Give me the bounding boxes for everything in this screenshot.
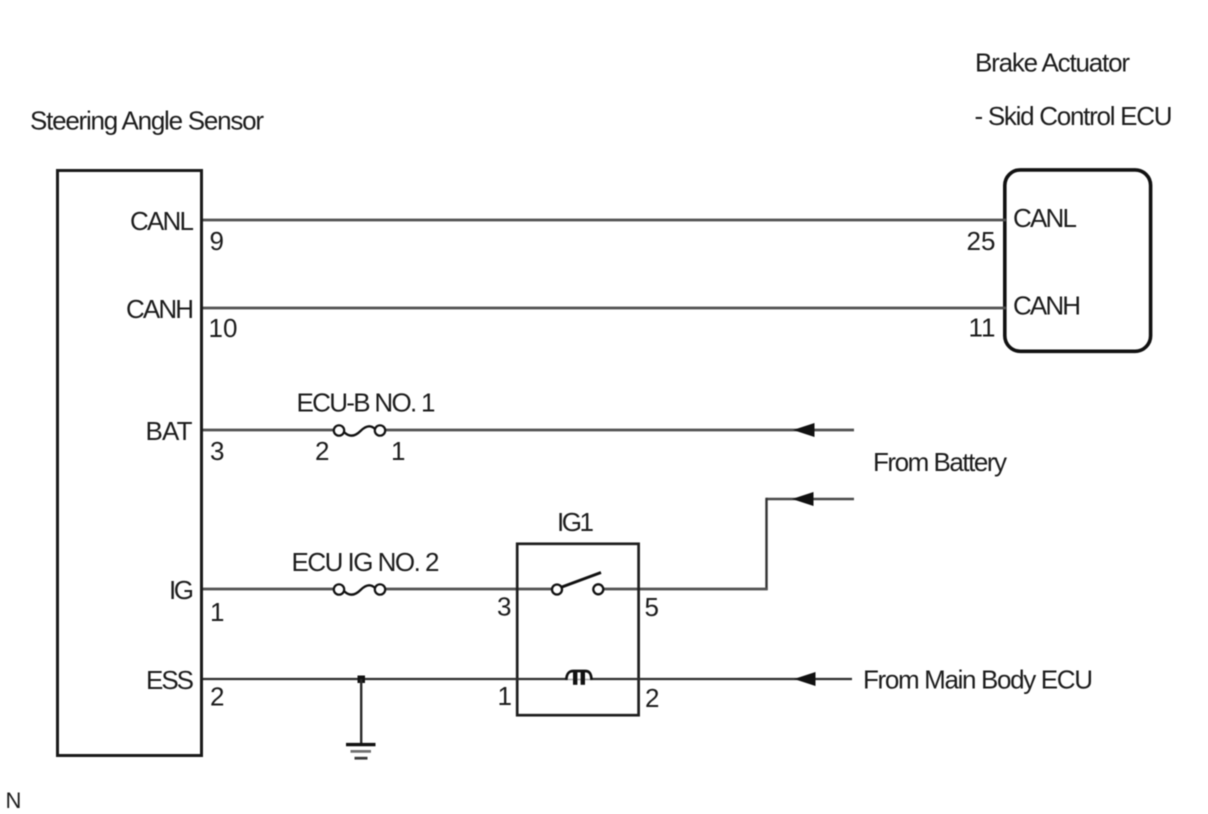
wire BAT xyxy=(203,429,854,432)
svg-text:9: 9 xyxy=(210,226,224,256)
svg-text:From Main Body ECU: From Main Body ECU xyxy=(863,665,1093,695)
pin number 2 (sensor ESS) xyxy=(210,682,224,712)
pin label CANL (ECU) xyxy=(1013,203,1077,233)
svg-text:10: 10 xyxy=(209,313,238,343)
svg-text:From Battery: From Battery xyxy=(873,447,1007,477)
fuse F1 symbol xyxy=(334,425,385,435)
svg-text:CANL: CANL xyxy=(130,206,194,236)
svg-text:2: 2 xyxy=(645,683,659,713)
label: From Battery xyxy=(873,447,1007,477)
fuse pin number 1 xyxy=(391,436,405,466)
wire from battery to IG1 (upper segment) xyxy=(767,498,855,500)
pin number 3 xyxy=(210,436,224,466)
wire CANL xyxy=(203,219,1006,222)
svg-text:1: 1 xyxy=(391,436,405,466)
ground symbol xyxy=(346,745,376,759)
svg-text:- Skid Control ECU: - Skid Control ECU xyxy=(975,101,1173,131)
svg-text:2: 2 xyxy=(210,682,224,712)
label: Steering Angle Sensor xyxy=(30,106,264,136)
svg-text:1: 1 xyxy=(498,681,512,711)
arrowhead from battery (lower) xyxy=(792,492,814,506)
wire CANH xyxy=(203,307,1006,310)
fuse ECU IG NO. 2 label xyxy=(292,547,440,577)
label: - Skid Control ECU xyxy=(975,101,1173,131)
svg-text:2: 2 xyxy=(315,436,329,466)
wire IG xyxy=(203,588,768,591)
svg-text:5: 5 xyxy=(645,592,659,622)
svg-text:BAT: BAT xyxy=(146,416,193,446)
pin number 5 (IG1 right) xyxy=(645,592,659,622)
svg-text:CANH: CANH xyxy=(126,294,194,324)
svg-text:CANL: CANL xyxy=(1013,203,1077,233)
svg-text:ECU-B NO. 1: ECU-B NO. 1 xyxy=(297,388,436,418)
fuse ECU-B NO. 1 label xyxy=(297,388,436,418)
label: N (page marker) xyxy=(6,788,22,813)
label: From Main Body ECU xyxy=(863,665,1093,695)
label: Brake Actuator xyxy=(975,48,1130,78)
svg-text:Steering Angle Sensor: Steering Angle Sensor xyxy=(30,106,264,136)
connector box: Brake Actuator Skid Control ECU xyxy=(1005,170,1151,351)
svg-text:IG: IG xyxy=(169,575,194,605)
svg-text:ESS: ESS xyxy=(146,665,194,695)
pin number 9 xyxy=(210,226,224,256)
fuse F2 symbol xyxy=(334,584,385,594)
pin number 11 xyxy=(969,313,996,343)
svg-text:3: 3 xyxy=(497,592,511,622)
pin number 1 (IG1 bottom left) xyxy=(498,681,512,711)
ground wire stem xyxy=(360,679,362,744)
arrowhead ESS from main body ECU xyxy=(794,672,816,686)
pin number 1 (sensor IG) xyxy=(210,597,224,627)
pin label CANH (ECU) xyxy=(1013,291,1081,321)
svg-text:Brake Actuator: Brake Actuator xyxy=(975,48,1130,78)
svg-text:3: 3 xyxy=(210,436,224,466)
pin label BAT xyxy=(146,416,193,446)
pin label CANH (sensor) xyxy=(126,294,194,324)
junction dot ESS/ground xyxy=(358,676,366,684)
fuse pin number 2 xyxy=(315,436,329,466)
switch SW1 contacts xyxy=(552,573,603,595)
label: IG1 xyxy=(557,507,594,537)
pin number 3 (IG1 left) xyxy=(497,592,511,622)
svg-text:ECU IG NO. 2: ECU IG NO. 2 xyxy=(292,547,440,577)
svg-text:1: 1 xyxy=(210,597,224,627)
pin number 25 xyxy=(967,226,996,256)
svg-text:11: 11 xyxy=(969,313,996,343)
arrowhead BAT from battery xyxy=(793,423,815,437)
pin number 2 (IG1 bottom right) xyxy=(645,683,659,713)
pin label IG xyxy=(169,575,194,605)
connector box: Steering Angle Sensor xyxy=(58,171,202,756)
svg-text:IG1: IG1 xyxy=(557,507,594,537)
switch box IG1 xyxy=(517,544,638,715)
svg-text:CANH: CANH xyxy=(1013,291,1081,321)
svg-text:25: 25 xyxy=(967,226,996,256)
wire ESS xyxy=(203,678,852,680)
pin label CANL (sensor) xyxy=(130,206,194,236)
pin label ESS xyxy=(146,665,194,695)
svg-text:N: N xyxy=(6,788,22,813)
pin number 10 xyxy=(209,313,238,343)
wire vertical drop to IG wire xyxy=(765,498,767,590)
noise filter coil in IG1 xyxy=(566,671,592,685)
